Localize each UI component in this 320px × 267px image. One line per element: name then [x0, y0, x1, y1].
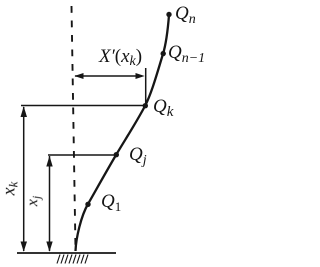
label xk rotated: [0, 182, 19, 196]
curve Q1..Qn: [76, 15, 170, 251]
node Qk: [143, 103, 148, 108]
ground baseline: [17, 252, 116, 254]
node Q1: [85, 202, 90, 207]
label Q1: [101, 191, 121, 213]
label X'(xk): [99, 46, 142, 68]
node Qn: [166, 12, 171, 17]
label Qk: [153, 96, 173, 118]
arrowhead xk down: [21, 242, 28, 252]
dimension line xj vertical: [49, 156, 51, 251]
dimension line xk vertical: [23, 107, 25, 251]
arrowhead X'(xk) right: [136, 73, 145, 79]
arrowhead xk up: [21, 106, 28, 117]
arrowhead xj down: [46, 242, 52, 252]
dashed vertical axis: [72, 6, 76, 250]
label xj rotated: [24, 196, 42, 206]
dimension line xj top extension: [48, 154, 114, 156]
label Qn: [175, 3, 196, 25]
dimension line xk top extension: [21, 105, 143, 107]
arrowhead X'(xk) left: [74, 73, 83, 79]
node Qj: [114, 152, 119, 157]
projection tick from X'(xk) to Qk: [145, 68, 147, 103]
arrow X'(xk) horizontal line: [75, 75, 142, 77]
arrowhead xj up: [46, 156, 52, 167]
label Qn-1: [168, 42, 205, 64]
node Qn-1: [161, 51, 166, 56]
label Qj: [129, 144, 147, 166]
ground hatching: [57, 255, 88, 264]
